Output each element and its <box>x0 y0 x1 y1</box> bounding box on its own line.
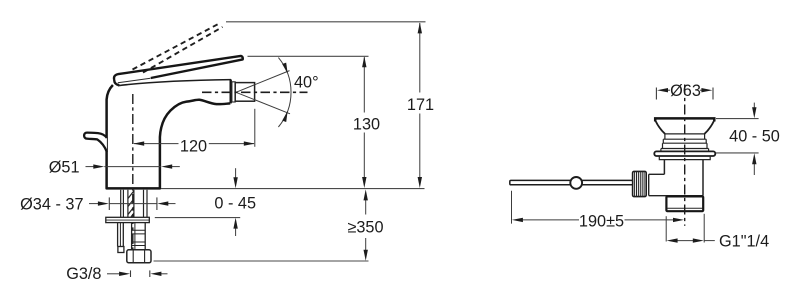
stud rod below washer left <box>117 223 119 247</box>
dimension G3/8: tick right <box>149 270 151 277</box>
190±5 extension line at rod end <box>511 191 513 224</box>
Ø34-37 line across shank <box>109 203 157 205</box>
dimension G3/8: tick left <box>130 270 132 277</box>
svg-text:G3/8: G3/8 <box>66 265 101 283</box>
nut facet line right <box>144 250 146 263</box>
tee branch top edge <box>649 173 665 175</box>
Ø51 left tail and arrow <box>86 166 95 168</box>
trumpet flare right <box>705 121 715 134</box>
dimension 0-45: upper arrow to deck <box>235 168 237 179</box>
trumpet flare left <box>655 121 665 134</box>
130 arrow up <box>362 56 366 67</box>
hose inner line <box>134 223 136 250</box>
svg-text:Ø63: Ø63 <box>670 82 701 100</box>
G3/8 right tail and arrow <box>161 273 168 275</box>
threaded shank: spiral tube left <box>127 190 129 218</box>
40° arc arrowhead bottom <box>282 111 288 122</box>
aerator neck <box>232 82 235 102</box>
rod ball joint <box>570 177 582 189</box>
svg-text:Ø34 - 37: Ø34 - 37 <box>20 195 83 213</box>
G3/8 hex nut <box>127 250 151 263</box>
dimension 171 vertical line lower part <box>419 114 421 179</box>
svg-text:0 - 45: 0 - 45 <box>214 195 256 213</box>
svg-text:G1"1/4: G1"1/4 <box>719 233 769 251</box>
wire: reference line at rest-handle tip (130 top) <box>248 55 369 57</box>
tee branch left edge <box>648 174 650 195</box>
svg-text:130: 130 <box>353 115 380 133</box>
collar ring 1 <box>665 134 705 139</box>
horizontal pull rod <box>510 180 633 184</box>
aerator body <box>235 83 254 102</box>
svg-text:120: 120 <box>180 137 207 155</box>
waste vertical centerline (dash-dot) <box>684 85 686 226</box>
dimension Ø34-37: tick left <box>108 197 110 210</box>
dimension G1"1/4 line and arrows out <box>675 240 695 242</box>
Ø63 left arrow (pointing out) <box>667 89 671 91</box>
dimension Ø34-37: tick right <box>156 197 158 210</box>
wire: raised-handle projection dashed line lower <box>143 27 223 73</box>
spout top edge <box>118 80 231 86</box>
dimension 40-50: bottom arrow up <box>753 163 755 175</box>
hose line left above washer <box>143 190 145 218</box>
tailpiece thread line <box>667 207 703 209</box>
130 arrow down <box>362 177 366 188</box>
dimension Ø63: tick right <box>712 88 714 100</box>
collar ring 3 <box>663 143 708 148</box>
spray cone upper ray <box>236 71 290 93</box>
dimension 190±5 left segment, arrow out <box>521 219 579 221</box>
G1"1/4 leader <box>704 240 715 242</box>
171 arrow down <box>418 177 422 188</box>
svg-text:40°: 40° <box>294 74 319 92</box>
svg-text:≥350: ≥350 <box>347 219 383 237</box>
nozzle axis centerline (dash-dot) <box>202 91 308 93</box>
G1"1/4 extension line right <box>703 214 705 243</box>
wire: top reference line (raised handle height) <box>226 21 426 23</box>
dimension 40-50: top arrow down <box>753 103 755 109</box>
junction line body/tailpiece <box>649 195 703 197</box>
dimension 120: right segment with outward arrow at nozzle extension <box>209 143 254 145</box>
lever pivot corner <box>114 80 118 85</box>
svg-text:190±5: 190±5 <box>579 212 624 230</box>
40° dimension arc <box>278 58 291 127</box>
40-50 upper reference line <box>716 118 759 120</box>
dimension ≥350 lower arrow <box>365 238 367 252</box>
lip under disc <box>659 156 710 160</box>
faucet body outline with spout <box>107 85 231 188</box>
171 arrow up <box>418 22 422 33</box>
threaded shank: spiral tube right <box>133 190 135 218</box>
flange disc on deck <box>654 151 715 156</box>
dimension Ø51: line across body <box>104 166 161 168</box>
Ø34-37 right tail and arrow <box>167 203 176 205</box>
dimension ≥350 upper arrow <box>365 199 367 215</box>
lever handle (solid, at rest) <box>114 56 243 79</box>
hose line right above washer <box>146 190 148 218</box>
svg-text:40 - 50: 40 - 50 <box>729 128 780 146</box>
bottom reference line <box>154 260 369 262</box>
nut facet line left <box>132 250 134 263</box>
waste trumpet top rim <box>655 118 714 121</box>
waste body left side <box>663 160 665 175</box>
collar ring 4 <box>661 149 709 152</box>
knurled rod nut <box>633 171 647 196</box>
thread spiral hatches <box>128 191 134 217</box>
washer plate under deck <box>106 217 150 222</box>
threaded shank: stud rod right line <box>122 190 124 218</box>
collar ring 2 <box>663 139 706 143</box>
stud rod below washer middle <box>119 223 121 247</box>
hose right edge <box>144 223 146 250</box>
stud nut tip <box>118 247 124 253</box>
Ø51 right tail and arrow <box>172 166 180 168</box>
spray cone lower ray <box>236 92 290 114</box>
washer mid line <box>106 219 150 221</box>
dimension 190±5 right segment, arrow out <box>625 219 675 221</box>
stud rod below washer right <box>122 223 124 247</box>
svg-text:Ø51: Ø51 <box>49 158 80 176</box>
40° arc arrowhead top <box>282 63 288 74</box>
hose below washer left edge <box>131 223 133 250</box>
dimension 0-45: lower arrow up to line <box>235 227 237 236</box>
counter max-thickness line <box>155 217 240 219</box>
Ø34-37 left tail and arrow <box>89 203 99 205</box>
pop-up drain knob <box>84 133 107 152</box>
dimension 130 vertical line lower part <box>363 133 365 179</box>
tailpiece <box>666 196 703 211</box>
body top seam under lever <box>118 78 151 83</box>
dimension 120: left segment with outward arrow at centerline <box>134 143 179 145</box>
wire: raised-handle projection dashed line upper <box>133 23 221 70</box>
faucet vertical centerline (dash-dot) <box>132 94 134 251</box>
spout end cap <box>229 80 231 104</box>
hose segment bands <box>132 230 146 245</box>
deck surface line <box>161 188 425 190</box>
waste body right side <box>702 160 704 196</box>
dimension Ø63: tick left <box>655 88 657 100</box>
extension line from nozzle tip down <box>254 109 256 147</box>
40-50 lower reference line <box>716 152 759 154</box>
dimension 171 vertical line upper part <box>419 23 421 93</box>
G1"1/4 extension line left <box>665 216 667 241</box>
G3/8 left tail and arrow <box>107 273 120 275</box>
threaded shank: stud rod left line <box>120 190 122 218</box>
knurl stripes <box>635 171 645 196</box>
svg-text:171: 171 <box>407 96 434 114</box>
Ø63 right arrow (pointing out) <box>700 89 703 91</box>
dimension 130 vertical line upper part <box>363 57 365 112</box>
